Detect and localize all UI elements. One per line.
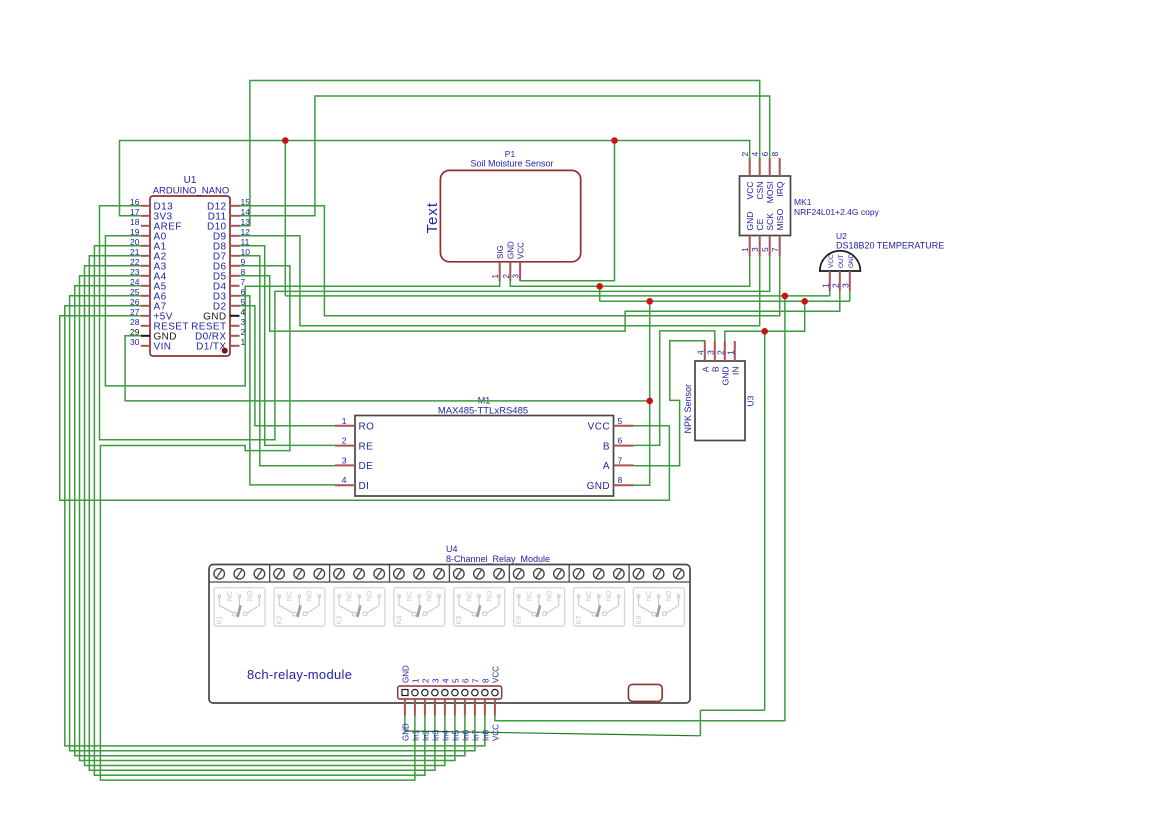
relay K7 bbox=[574, 588, 625, 627]
svg-text:2: 2 bbox=[830, 283, 840, 288]
relay header pin stub 2 bbox=[414, 699, 416, 716]
svg-text:7: 7 bbox=[471, 678, 480, 683]
svg-text:4: 4 bbox=[342, 475, 347, 485]
sensor U3 NPK Sensor bbox=[683, 341, 756, 441]
svg-text:1: 1 bbox=[740, 247, 750, 252]
svg-text:B: B bbox=[710, 366, 720, 372]
wire 3V3 to NRF VCC and P1 VCC rail bbox=[120, 141, 750, 216]
svg-text:CE: CE bbox=[755, 218, 765, 230]
svg-text:K2: K2 bbox=[277, 616, 284, 625]
svg-text:B: B bbox=[603, 441, 610, 452]
svg-text:NO: NO bbox=[427, 590, 434, 601]
wire GND29 to GND net bbox=[125, 336, 650, 401]
svg-text:5: 5 bbox=[618, 416, 623, 426]
svg-text:In2: In2 bbox=[421, 729, 430, 741]
svg-text:30: 30 bbox=[130, 337, 140, 347]
svg-text:U2: U2 bbox=[836, 231, 847, 241]
svg-text:MAX485-TTLxRS485: MAX485-TTLxRS485 bbox=[438, 406, 528, 417]
svg-text:K4: K4 bbox=[396, 616, 403, 625]
junction GND rail M1 GND8 riser bbox=[646, 298, 653, 305]
svg-text:7: 7 bbox=[241, 277, 246, 287]
svg-text:In4: In4 bbox=[441, 729, 450, 741]
svg-text:2: 2 bbox=[502, 274, 511, 279]
svg-text:1: 1 bbox=[820, 283, 830, 288]
svg-text:GND: GND bbox=[848, 253, 855, 268]
svg-text:2: 2 bbox=[342, 436, 347, 446]
svg-text:In8: In8 bbox=[481, 729, 490, 741]
svg-text:8-Channel_Relay_Module: 8-Channel_Relay_Module bbox=[446, 554, 550, 564]
svg-text:U3: U3 bbox=[746, 395, 756, 406]
svg-text:In1: In1 bbox=[411, 729, 420, 741]
wire A6 to relay In7 bbox=[70, 296, 475, 751]
wire A4 to relay In5 bbox=[80, 276, 455, 761]
junction GND rail U3 branch bbox=[801, 298, 808, 305]
svg-text:7: 7 bbox=[618, 455, 623, 465]
svg-text:NRF24L01+2.4G copy: NRF24L01+2.4G copy bbox=[794, 207, 880, 217]
relay header pin stub 9 bbox=[484, 699, 486, 716]
svg-text:4: 4 bbox=[695, 350, 705, 355]
relay K1 bbox=[214, 588, 265, 627]
svg-text:A: A bbox=[700, 366, 710, 372]
relay header pin stub 3 bbox=[424, 699, 426, 716]
svg-text:3: 3 bbox=[750, 247, 760, 252]
connector P1 Soil Moisture Sensor bbox=[424, 149, 581, 281]
svg-text:GND: GND bbox=[720, 367, 730, 386]
svg-text:SCK: SCK bbox=[765, 213, 775, 231]
svg-text:IN: IN bbox=[730, 367, 740, 376]
svg-text:3: 3 bbox=[705, 350, 715, 355]
svg-text:K8: K8 bbox=[636, 616, 643, 625]
wire A7 to relay In8 bbox=[65, 306, 485, 746]
svg-text:NO: NO bbox=[546, 590, 553, 601]
wire relay GND riser bbox=[764, 331, 766, 710]
junction on 3V3 rail at +V branch bbox=[282, 137, 289, 144]
svg-text:DI: DI bbox=[359, 481, 370, 492]
svg-text:GND: GND bbox=[401, 665, 410, 683]
svg-text:In3: In3 bbox=[431, 729, 440, 741]
wire GND rail to U2 GND bbox=[600, 300, 850, 302]
svg-text:K5: K5 bbox=[456, 616, 463, 625]
junction relay GND riser on U3 GND branch bbox=[761, 328, 768, 335]
svg-text:P1: P1 bbox=[505, 149, 516, 159]
wire M1 GND8 riser bbox=[634, 301, 650, 485]
svg-text:8: 8 bbox=[481, 678, 490, 683]
wire GND jog down to GND rail bbox=[599, 286, 601, 301]
svg-text:6: 6 bbox=[760, 152, 770, 157]
relay header net labels bbox=[401, 723, 500, 741]
wire D11 to NRF MOSI bbox=[240, 96, 770, 216]
svg-text:K1: K1 bbox=[217, 616, 224, 625]
junction GND jog bbox=[596, 283, 603, 290]
svg-text:1: 1 bbox=[411, 678, 420, 683]
svg-text:K6: K6 bbox=[516, 616, 523, 625]
svg-text:DE: DE bbox=[359, 461, 374, 472]
wire A5 to relay In6 bbox=[75, 286, 465, 756]
relay K3 bbox=[334, 588, 385, 627]
wire D12 to NRF MISO bbox=[240, 206, 780, 316]
relay header pin stub 4 bbox=[434, 699, 436, 716]
wire relay GND diagonal bbox=[405, 716, 701, 736]
relay header pin stub 7 bbox=[464, 699, 466, 716]
svg-text:GND: GND bbox=[401, 723, 410, 741]
wire +5V to M1 VCC rail bbox=[60, 316, 670, 500]
wire U2 GND pin drop bbox=[849, 291, 851, 301]
svg-text:7: 7 bbox=[770, 247, 780, 252]
wire M1 B to U3 B bbox=[634, 331, 715, 446]
svg-text:3: 3 bbox=[431, 678, 440, 683]
svg-text:6: 6 bbox=[461, 678, 470, 683]
wire D13 to NRF SCK bbox=[100, 206, 770, 440]
svg-text:In7: In7 bbox=[471, 729, 480, 741]
svg-text:Text: Text bbox=[424, 202, 441, 234]
wire U2 OUT to D5 bbox=[240, 276, 840, 331]
svg-text:SIG: SIG bbox=[496, 245, 505, 259]
sensor U2 DS18B20 bbox=[820, 231, 944, 291]
svg-text:5: 5 bbox=[451, 678, 460, 683]
svg-text:U4: U4 bbox=[446, 544, 458, 554]
svg-text:3: 3 bbox=[342, 455, 347, 465]
wire P1 SIG to A0 bbox=[105, 236, 499, 386]
svg-text:8: 8 bbox=[618, 475, 623, 485]
module MK1 NRF24L01+2.4G bbox=[740, 152, 880, 257]
wire A1 to relay In2 bbox=[94, 246, 425, 776]
svg-text:NO: NO bbox=[367, 590, 374, 601]
svg-text:VCC: VCC bbox=[828, 254, 835, 268]
wire relay VCC to +V net bbox=[495, 296, 785, 721]
wire P1 GND to NRF GND bbox=[510, 256, 749, 286]
svg-text:VIN: VIN bbox=[154, 342, 172, 353]
svg-text:K7: K7 bbox=[576, 616, 583, 625]
svg-text:DS18B20 TEMPERATURE: DS18B20 TEMPERATURE bbox=[836, 241, 944, 251]
pushbutton outline bbox=[628, 684, 662, 701]
svg-text:VCC: VCC bbox=[491, 724, 500, 741]
wire U2 VCC pin drop bbox=[829, 291, 831, 296]
svg-text:3: 3 bbox=[512, 274, 521, 279]
svg-text:28: 28 bbox=[130, 317, 140, 327]
relay K5 bbox=[454, 588, 505, 627]
wire D7 to M1 DE bbox=[240, 256, 335, 466]
svg-text:MISO: MISO bbox=[775, 208, 785, 230]
junction GND29 tee bbox=[646, 398, 653, 405]
wire D3 to M1 DI bbox=[240, 296, 335, 485]
svg-text:NC: NC bbox=[407, 591, 414, 601]
svg-text:4: 4 bbox=[441, 678, 450, 683]
svg-text:NO: NO bbox=[247, 590, 254, 601]
svg-text:IRQ: IRQ bbox=[775, 181, 785, 197]
svg-text:2: 2 bbox=[740, 152, 750, 157]
svg-text:ARDUINO_NANO: ARDUINO_NANO bbox=[153, 186, 230, 197]
svg-text:1: 1 bbox=[342, 416, 347, 426]
svg-text:8: 8 bbox=[770, 152, 780, 157]
wire P1 VCC to 3V3 rail riser bbox=[520, 141, 614, 281]
svg-text:NC: NC bbox=[227, 591, 234, 601]
relay K4 bbox=[394, 588, 445, 627]
transceiver M1 MAX485-TTLxRS485 bbox=[335, 396, 634, 497]
svg-text:NC: NC bbox=[466, 591, 473, 601]
svg-text:GND: GND bbox=[507, 241, 516, 259]
svg-text:NC: NC bbox=[347, 591, 354, 601]
relay header pin stub 8 bbox=[474, 699, 476, 716]
wire A3 to relay In4 bbox=[85, 266, 445, 766]
svg-text:VCC: VCC bbox=[491, 666, 500, 683]
svg-text:MK1: MK1 bbox=[794, 197, 812, 207]
svg-text:1: 1 bbox=[725, 350, 735, 355]
svg-text:6: 6 bbox=[618, 436, 623, 446]
IC U1 ARDUINO_NANO bbox=[130, 175, 250, 356]
svg-text:NC: NC bbox=[526, 591, 533, 601]
svg-text:NC: NC bbox=[287, 591, 294, 601]
module U4 8-Channel_Relay_Module bbox=[209, 544, 690, 703]
svg-text:1: 1 bbox=[491, 274, 500, 279]
svg-text:Soil Moisture Sensor: Soil Moisture Sensor bbox=[470, 159, 553, 169]
svg-text:RE: RE bbox=[359, 441, 374, 452]
wire U3 GND branch bbox=[725, 301, 805, 341]
wire M1 A to U3 A bbox=[634, 341, 705, 466]
svg-text:MOSI: MOSI bbox=[765, 182, 775, 204]
svg-text:8ch-relay-module: 8ch-relay-module bbox=[247, 667, 352, 682]
svg-text:OUT: OUT bbox=[838, 254, 845, 268]
svg-text:3: 3 bbox=[840, 283, 850, 288]
svg-text:In6: In6 bbox=[461, 729, 470, 741]
svg-text:RO: RO bbox=[359, 422, 375, 433]
relay header pin stub 6 bbox=[454, 699, 456, 716]
svg-text:K3: K3 bbox=[336, 616, 343, 625]
relay header pin stub 5 bbox=[444, 699, 446, 716]
svg-text:VCC: VCC bbox=[588, 422, 610, 433]
svg-text:NC: NC bbox=[646, 591, 653, 601]
svg-text:18: 18 bbox=[130, 217, 140, 227]
svg-text:VCC: VCC bbox=[745, 182, 755, 200]
wire D8 to M1 RE bbox=[240, 246, 335, 446]
junction on 3V3 rail at P1 VCC riser bbox=[611, 137, 618, 144]
svg-text:2: 2 bbox=[421, 678, 430, 683]
svg-text:NPK Sensor: NPK Sensor bbox=[683, 384, 693, 434]
svg-text:In5: In5 bbox=[451, 729, 460, 741]
wire A2 to relay In3 bbox=[89, 256, 435, 771]
relay header pin stub 10 bbox=[494, 699, 496, 716]
svg-text:NC: NC bbox=[586, 591, 593, 601]
svg-text:A: A bbox=[603, 461, 610, 472]
wire D6 to relay In1 bbox=[100, 266, 415, 780]
relay K6 bbox=[514, 588, 565, 627]
svg-text:NO: NO bbox=[486, 590, 493, 601]
svg-text:CSN: CSN bbox=[755, 182, 765, 200]
wire VCC branch from 3V3 rail down to +V net bbox=[284, 141, 286, 296]
relay header pin stub 1 bbox=[404, 699, 406, 716]
svg-text:NO: NO bbox=[606, 590, 613, 601]
relay K2 bbox=[274, 588, 325, 627]
svg-text:GND: GND bbox=[745, 212, 755, 231]
svg-text:NO: NO bbox=[666, 590, 673, 601]
svg-text:NO: NO bbox=[307, 590, 314, 601]
junction +V relay VCC riser bbox=[782, 293, 789, 300]
svg-text:U1: U1 bbox=[184, 175, 197, 186]
wire relay GND horizontal bbox=[700, 709, 764, 711]
relay K8 bbox=[633, 588, 684, 627]
svg-text:5: 5 bbox=[760, 247, 770, 252]
wire D9 to NRF CE bbox=[240, 236, 760, 326]
svg-text:2: 2 bbox=[715, 350, 725, 355]
svg-text:4: 4 bbox=[750, 152, 760, 157]
wire D10 to NRF CSN bbox=[240, 81, 760, 226]
svg-text:GND: GND bbox=[587, 481, 610, 492]
svg-text:VCC: VCC bbox=[516, 242, 525, 259]
wire D2 to M1 RO bbox=[240, 306, 335, 426]
wire relay GND drop bbox=[699, 710, 701, 736]
wire +V horizontal net bbox=[285, 295, 830, 297]
